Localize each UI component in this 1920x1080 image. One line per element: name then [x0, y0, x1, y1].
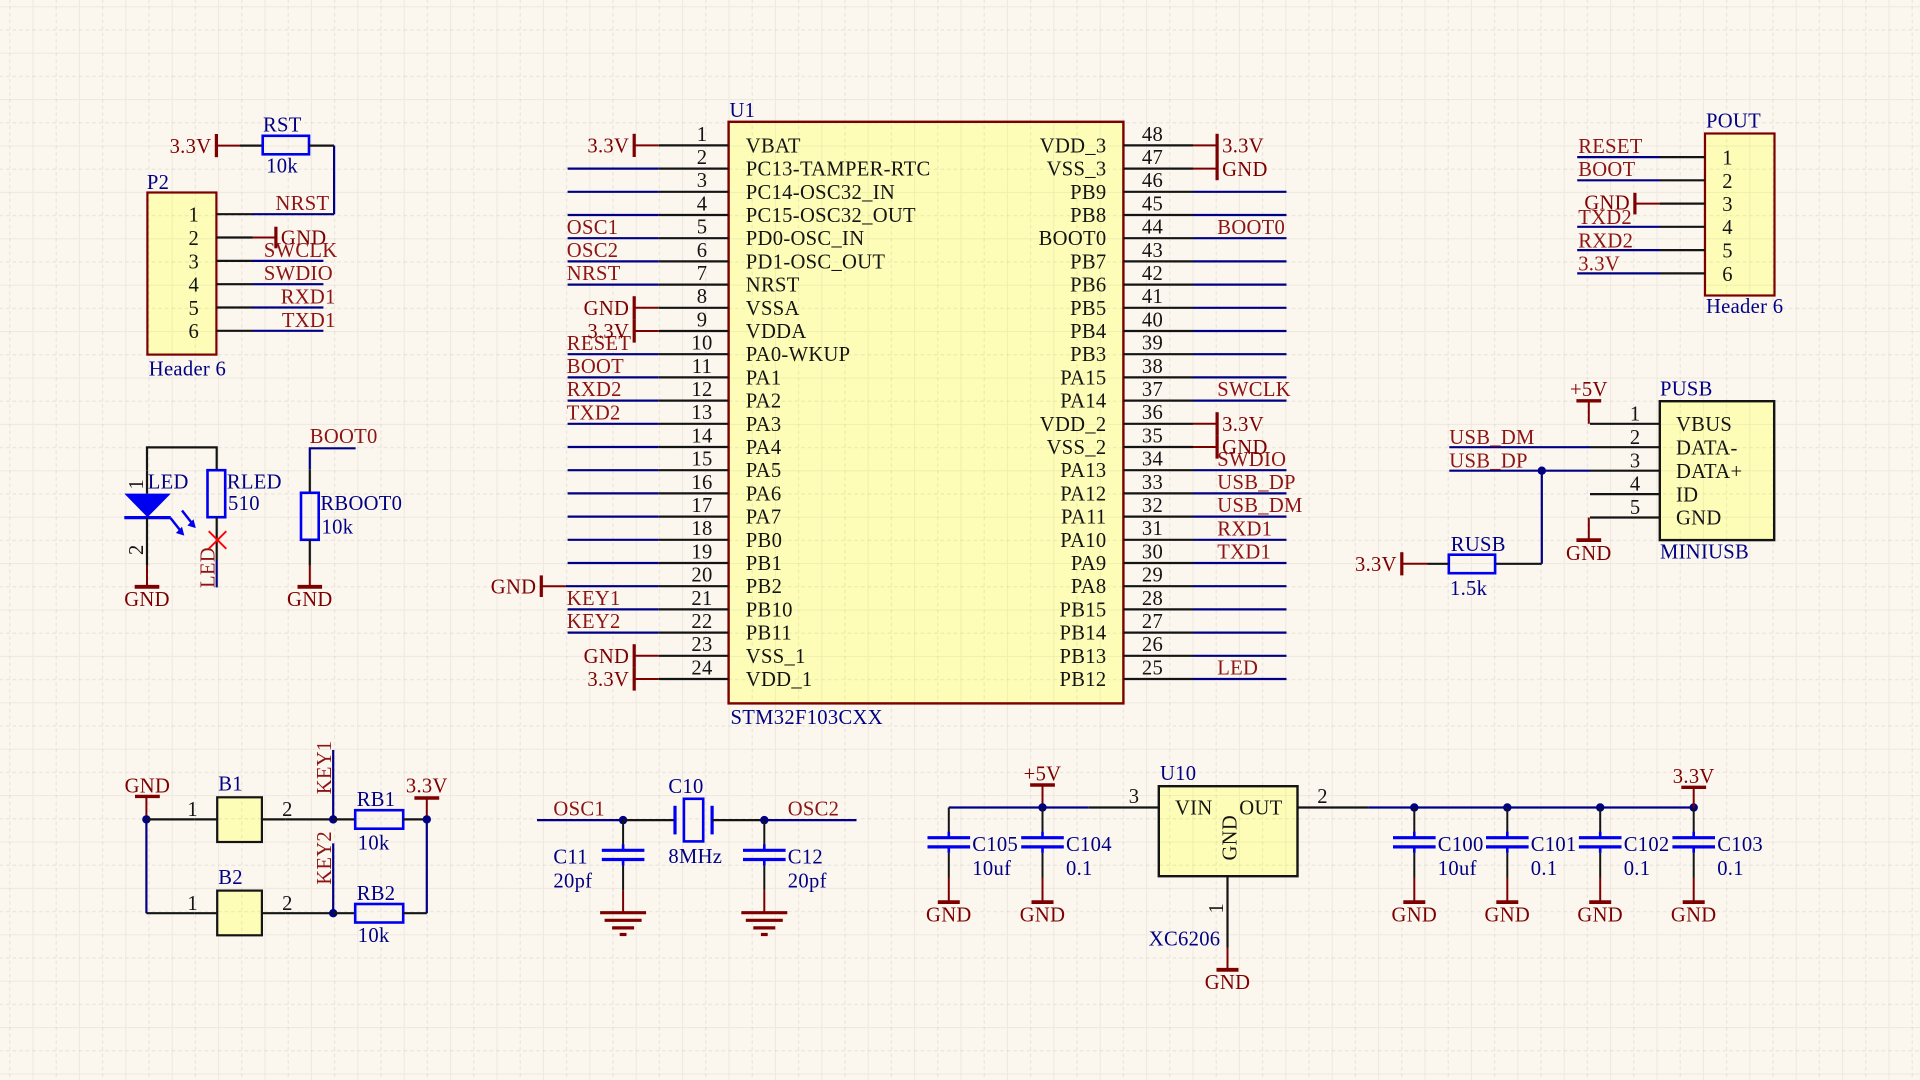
svg-text:36: 36	[1142, 402, 1163, 424]
svg-text:OUT: OUT	[1239, 798, 1282, 820]
svg-text:LED: LED	[1217, 658, 1258, 680]
U1 pin 45 (PB8)	[1070, 193, 1193, 227]
P2 pin 1	[188, 205, 252, 227]
svg-text:PB13: PB13	[1060, 646, 1107, 668]
svg-text:22: 22	[691, 611, 712, 633]
wire	[1193, 260, 1287, 262]
U1 pin 11 (PA1)	[659, 356, 782, 390]
svg-text:5: 5	[1630, 497, 1641, 519]
resistor RB1 10k	[355, 789, 403, 855]
svg-text:4: 4	[1722, 217, 1733, 239]
svg-text:GND: GND	[1577, 904, 1623, 926]
svg-text:Header 6: Header 6	[149, 358, 226, 380]
svg-text:25: 25	[1142, 657, 1163, 679]
power port 3.3V at rail	[1673, 766, 1715, 808]
wire	[1193, 585, 1287, 587]
svg-text:U1: U1	[730, 100, 756, 122]
svg-text:5: 5	[697, 217, 708, 239]
U1 pin 32 (PA11)	[1061, 495, 1193, 529]
wire	[333, 818, 355, 820]
U1 pin 2 (PC13-TAMPER-RTC)	[659, 147, 931, 181]
wire	[1193, 284, 1287, 286]
svg-text:GND: GND	[584, 646, 630, 668]
wire	[285, 912, 333, 914]
net label SWDIO	[1217, 449, 1286, 471]
U1 pin 24 (VDD_1)	[659, 657, 813, 691]
U1 pin 48 (VDD_3)	[1040, 124, 1193, 158]
svg-text:PD0-OSC_IN: PD0-OSC_IN	[746, 228, 865, 250]
svg-text:PC14-OSC32_IN: PC14-OSC32_IN	[746, 182, 895, 204]
ground GND under C102	[1577, 878, 1623, 927]
svg-text:33: 33	[1142, 472, 1163, 494]
header P2 (Header 6) body	[147, 172, 226, 380]
svg-text:1: 1	[1630, 403, 1641, 425]
power port 3.3V at U1 pin 48	[1193, 134, 1264, 158]
svg-text:B1: B1	[218, 774, 243, 796]
svg-text:BOOT0: BOOT0	[310, 426, 378, 448]
svg-text:30: 30	[1142, 541, 1163, 563]
svg-text:XC6206: XC6206	[1149, 928, 1221, 950]
wire	[1506, 808, 1508, 833]
svg-text:NRST: NRST	[567, 263, 621, 285]
net label RXD2	[567, 379, 622, 401]
svg-text:RLED: RLED	[227, 471, 282, 493]
svg-text:RXD2: RXD2	[1578, 230, 1633, 252]
U1 pin 7 (NRST)	[659, 263, 800, 297]
svg-text:10k: 10k	[358, 833, 390, 855]
svg-text:TXD1: TXD1	[1217, 542, 1271, 564]
svg-text:PB9: PB9	[1070, 182, 1106, 204]
U1 pin 42 (PB6)	[1070, 263, 1193, 297]
wire	[712, 819, 764, 821]
wire	[253, 260, 324, 262]
wire	[568, 631, 659, 633]
svg-text:29: 29	[1142, 565, 1163, 587]
svg-text:PA1: PA1	[746, 367, 782, 389]
wire	[568, 214, 659, 216]
wire	[568, 284, 659, 286]
wire	[568, 400, 659, 402]
svg-text:14: 14	[691, 425, 712, 447]
U1 pin 41 (PB5)	[1070, 286, 1193, 320]
svg-text:18: 18	[691, 518, 712, 540]
junction	[1503, 803, 1511, 811]
U1 pin 25 (PB12)	[1060, 657, 1193, 691]
wire	[568, 608, 659, 610]
svg-text:NRST: NRST	[276, 193, 330, 215]
wire	[1506, 853, 1508, 878]
wire	[309, 540, 311, 566]
net label KEY2 (rotated)	[314, 831, 336, 885]
U1 pin 23 (VSS_1)	[659, 634, 806, 668]
power port 3.3V at RUSB	[1355, 552, 1428, 576]
junction	[329, 815, 337, 823]
svg-text:6: 6	[1722, 264, 1733, 286]
svg-text:1: 1	[187, 893, 198, 915]
svg-text:2: 2	[1722, 171, 1733, 193]
U1 pin 9 (VDDA)	[659, 309, 807, 343]
ground GND under LED	[124, 566, 170, 612]
ground GND under RBOOT0	[287, 566, 333, 612]
svg-text:5: 5	[1722, 241, 1733, 263]
svg-text:BOOT: BOOT	[1578, 159, 1635, 181]
net label TXD2	[1578, 207, 1632, 229]
wire KEY2	[332, 843, 334, 913]
svg-text:KEY1: KEY1	[567, 588, 621, 610]
U1 pin 27 (PB14)	[1060, 611, 1193, 645]
svg-text:6: 6	[188, 321, 199, 343]
svg-text:PD1-OSC_OUT: PD1-OSC_OUT	[746, 251, 886, 273]
svg-text:37: 37	[1142, 379, 1163, 401]
wire	[1577, 272, 1660, 274]
svg-text:10: 10	[691, 333, 712, 355]
PUSB pin 5 (GND)	[1590, 497, 1722, 530]
net label BOOT0	[310, 426, 378, 448]
svg-text:26: 26	[1142, 634, 1163, 656]
junction	[142, 815, 150, 823]
U10 pin 1 (GND)	[1206, 815, 1241, 948]
svg-text:VDD_3: VDD_3	[1040, 135, 1107, 157]
svg-text:1: 1	[188, 205, 199, 227]
resistor RST 10k	[263, 115, 309, 178]
svg-text:VSS_3: VSS_3	[1047, 159, 1107, 181]
svg-text:RXD2: RXD2	[567, 379, 622, 401]
svg-text:10k: 10k	[358, 925, 390, 947]
svg-text:PUSB: PUSB	[1660, 379, 1713, 401]
svg-text:C104: C104	[1066, 834, 1112, 856]
wire	[145, 819, 147, 913]
P2 pin 4	[188, 275, 252, 297]
U1 pin 14 (PA4)	[659, 425, 782, 459]
svg-text:PB5: PB5	[1070, 298, 1106, 320]
wire	[309, 470, 311, 493]
svg-text:PB8: PB8	[1070, 205, 1106, 227]
U1 pin 33 (PA12)	[1060, 472, 1193, 506]
net label OSC2	[567, 240, 619, 262]
header POUT (Header 6) body	[1705, 111, 1783, 319]
svg-text:PB14: PB14	[1060, 623, 1107, 645]
svg-text:C102: C102	[1624, 834, 1670, 856]
no-ERC marker	[209, 531, 227, 549]
svg-text:GND: GND	[1222, 159, 1268, 181]
svg-text:3.3V: 3.3V	[1222, 414, 1264, 436]
wire	[426, 819, 428, 913]
svg-text:C105: C105	[972, 834, 1018, 856]
wire	[1541, 471, 1543, 564]
U1 pin 46 (PB9)	[1070, 170, 1193, 204]
svg-text:GND: GND	[491, 576, 537, 598]
wire	[566, 585, 659, 587]
svg-text:3.3V: 3.3V	[406, 775, 448, 797]
svg-text:2: 2	[282, 893, 293, 915]
wire	[1599, 853, 1601, 878]
svg-text:TXD1: TXD1	[282, 310, 336, 332]
net label SWCLK	[264, 240, 338, 262]
svg-text:PB3: PB3	[1070, 344, 1106, 366]
wire	[1193, 214, 1287, 216]
wire	[622, 866, 624, 891]
svg-text:SWDIO: SWDIO	[264, 263, 333, 285]
U1 pin 36 (VDD_2)	[1040, 402, 1193, 436]
net label SWDIO	[264, 263, 333, 285]
svg-text:OSC2: OSC2	[788, 799, 840, 821]
wire	[285, 818, 333, 820]
power port 3.3V at buttons	[406, 775, 448, 819]
U1 pin 47 (VSS_3)	[1047, 147, 1193, 181]
wire USB_DM	[1449, 446, 1590, 448]
svg-text:P2: P2	[147, 172, 169, 194]
svg-text:13: 13	[691, 402, 712, 424]
net label SWCLK	[1217, 379, 1291, 401]
net label TXD2	[567, 402, 621, 424]
U1 pin 43 (PB7)	[1070, 240, 1193, 274]
svg-text:1: 1	[187, 799, 198, 821]
junction	[329, 909, 337, 917]
svg-text:VSS_1: VSS_1	[746, 646, 806, 668]
svg-text:1.5k: 1.5k	[1450, 578, 1488, 600]
svg-text:GND: GND	[1676, 508, 1722, 530]
wire	[1428, 563, 1449, 565]
svg-text:GND: GND	[1020, 904, 1066, 926]
wire	[1693, 808, 1695, 833]
wire	[948, 808, 950, 833]
wire	[1577, 249, 1660, 251]
svg-text:8: 8	[697, 286, 708, 308]
net label USB_DP	[1449, 451, 1527, 473]
svg-text:U10: U10	[1160, 763, 1196, 785]
power port GND at P2 pin 2	[253, 227, 327, 250]
svg-text:PA11: PA11	[1061, 507, 1106, 529]
svg-text:GND: GND	[584, 298, 630, 320]
power port 3.3V at U1 pin 24	[587, 667, 658, 691]
svg-text:PA7: PA7	[746, 507, 782, 529]
wire	[1193, 376, 1287, 378]
svg-text:GND: GND	[926, 904, 972, 926]
svg-text:SWCLK: SWCLK	[1217, 379, 1291, 401]
power port 3.3V at U1 pin 9	[587, 319, 658, 343]
wire	[1693, 853, 1695, 878]
power port GND at U1 pin 20	[491, 575, 566, 598]
wire	[333, 912, 355, 914]
svg-text:RST: RST	[263, 115, 302, 137]
regulator U10 XC6206 body	[1149, 763, 1298, 950]
svg-text:GND: GND	[1566, 543, 1612, 565]
svg-text:USB_DP: USB_DP	[1449, 451, 1527, 473]
wire	[1193, 515, 1287, 517]
resistor RUSB 1.5k	[1449, 534, 1506, 600]
wire	[1577, 156, 1660, 158]
U1 pin 40 (PB4)	[1070, 309, 1193, 343]
ground GND under C100	[1392, 878, 1438, 927]
svg-text:C12: C12	[788, 846, 823, 868]
svg-text:27: 27	[1142, 611, 1163, 633]
svg-text:PA12: PA12	[1060, 483, 1106, 505]
svg-text:+5V: +5V	[1024, 764, 1062, 786]
wire	[1193, 678, 1287, 680]
svg-text:4: 4	[188, 275, 199, 297]
wire KEY1	[332, 750, 334, 819]
wire	[1193, 330, 1287, 332]
button B2	[187, 867, 292, 936]
wire BOOT0	[310, 448, 356, 470]
svg-text:45: 45	[1142, 193, 1163, 215]
svg-text:PA15: PA15	[1060, 367, 1106, 389]
wire	[1193, 539, 1287, 541]
svg-text:3: 3	[1722, 194, 1733, 216]
U1 pin 6 (PD1-OSC_OUT)	[659, 240, 886, 274]
wire	[1413, 853, 1415, 878]
junction	[760, 816, 768, 824]
net label RXD1	[1217, 518, 1272, 540]
U1 pin 1 (VBAT)	[659, 124, 801, 158]
svg-text:NRST: NRST	[746, 275, 800, 297]
ground GND under C104	[1020, 878, 1066, 927]
svg-text:+5V: +5V	[1570, 379, 1608, 401]
net label RXD1	[281, 287, 336, 309]
wire	[948, 853, 950, 878]
wire	[146, 818, 194, 820]
wire	[1193, 307, 1287, 309]
net label OSC1	[553, 799, 605, 821]
net label BOOT	[1578, 159, 1635, 181]
svg-text:2: 2	[1317, 786, 1328, 808]
P2 pin 6	[188, 321, 252, 343]
net label RESET	[1578, 136, 1643, 158]
ground GND at PUSB pin 5	[1566, 518, 1612, 565]
svg-text:PB11: PB11	[746, 623, 792, 645]
wire	[1193, 400, 1287, 402]
svg-text:ID: ID	[1676, 484, 1698, 506]
svg-text:PA4: PA4	[746, 437, 782, 459]
wire	[146, 541, 148, 566]
svg-text:USB_DM: USB_DM	[1217, 495, 1302, 517]
svg-text:C100: C100	[1438, 834, 1484, 856]
svg-text:0.1: 0.1	[1066, 858, 1093, 880]
svg-text:STM32F103CXX: STM32F103CXX	[731, 707, 883, 729]
svg-text:47: 47	[1142, 147, 1163, 169]
svg-text:12: 12	[691, 379, 712, 401]
svg-text:3.3V: 3.3V	[587, 136, 629, 158]
wire	[568, 423, 659, 425]
svg-text:24: 24	[691, 657, 712, 679]
wire	[1495, 563, 1542, 565]
svg-text:KEY2: KEY2	[314, 831, 336, 885]
svg-text:21: 21	[691, 588, 712, 610]
net label USB_DM	[1449, 427, 1534, 449]
button B1	[187, 774, 292, 843]
U10 pin 3 (VIN)	[1089, 786, 1213, 819]
U1 pin 37 (PA14)	[1060, 379, 1193, 413]
wire	[568, 515, 659, 517]
svg-text:0.1: 0.1	[1531, 858, 1558, 880]
svg-text:USB_DP: USB_DP	[1217, 472, 1295, 494]
capacitor C11 20pf	[553, 844, 644, 892]
wire	[403, 912, 427, 914]
svg-text:VDD_2: VDD_2	[1040, 414, 1107, 436]
wire	[568, 191, 659, 193]
svg-text:20pf: 20pf	[788, 871, 827, 893]
U1 pin 30 (PA9)	[1071, 541, 1193, 575]
svg-text:RB2: RB2	[357, 883, 396, 905]
svg-text:PA8: PA8	[1071, 576, 1107, 598]
svg-text:USB_DM: USB_DM	[1449, 427, 1534, 449]
wire	[763, 820, 765, 845]
wire	[1193, 608, 1287, 610]
svg-text:PB1: PB1	[746, 553, 782, 575]
svg-text:PA13: PA13	[1060, 460, 1106, 482]
svg-text:KEY2: KEY2	[567, 611, 621, 633]
svg-text:7: 7	[697, 263, 708, 285]
net label USB_DP	[1217, 472, 1295, 494]
svg-text:44: 44	[1142, 217, 1163, 239]
svg-text:15: 15	[691, 449, 712, 471]
ground GND at buttons	[125, 775, 171, 819]
svg-text:PA14: PA14	[1060, 391, 1106, 413]
svg-text:GND: GND	[1205, 972, 1251, 994]
net label TXD1	[282, 310, 336, 332]
wire	[1413, 808, 1415, 833]
svg-text:VIN: VIN	[1175, 798, 1213, 820]
PUSB pin 4 (ID)	[1590, 474, 1698, 507]
ground GND under U10	[1205, 948, 1251, 995]
POUT pin 2	[1660, 171, 1733, 193]
junction	[619, 816, 627, 824]
U1 pin 5 (PD0-OSC_IN)	[659, 217, 865, 251]
svg-text:10uf: 10uf	[972, 858, 1011, 880]
ground GND under C105	[926, 878, 972, 927]
U1 pin 20 (PB2)	[659, 565, 782, 599]
power port GND at U1 pin 47	[1193, 157, 1268, 181]
wire	[1193, 631, 1287, 633]
svg-text:GND: GND	[1219, 815, 1241, 861]
svg-text:17: 17	[691, 495, 712, 517]
svg-text:20: 20	[691, 565, 712, 587]
U1 pin 10 (PA0-WKUP)	[659, 333, 851, 367]
wire	[403, 818, 427, 820]
ground (earth) under C12	[741, 890, 787, 934]
svg-text:3.3V: 3.3V	[1222, 136, 1264, 158]
svg-text:KEY1: KEY1	[314, 740, 336, 794]
resistor RBOOT0 10k	[301, 493, 402, 540]
wire USB_DP	[1449, 470, 1590, 472]
svg-text:6: 6	[697, 240, 708, 262]
svg-text:3: 3	[697, 170, 708, 192]
svg-text:BOOT0: BOOT0	[1039, 228, 1107, 250]
wire	[568, 492, 659, 494]
power port +5V at PUSB pin 1	[1570, 379, 1608, 424]
PUSB pin 1 (VBUS)	[1590, 403, 1732, 436]
wire	[568, 469, 659, 471]
PUSB pin 2 (DATA-)	[1590, 427, 1738, 460]
U1 pin 22 (PB11)	[659, 611, 792, 645]
svg-text:PA3: PA3	[746, 414, 782, 436]
net label RXD2	[1578, 230, 1633, 252]
net label RESET	[567, 333, 632, 355]
wire	[253, 330, 324, 332]
crystal C10 8MHz	[668, 776, 722, 868]
wire	[568, 237, 659, 239]
svg-text:11: 11	[692, 356, 712, 378]
resistor RLED 510	[208, 470, 282, 517]
U1 pin 28 (PB15)	[1060, 588, 1193, 622]
svg-text:510: 510	[228, 493, 260, 515]
svg-text:5: 5	[188, 298, 199, 320]
svg-text:PB4: PB4	[1070, 321, 1106, 343]
net label 3.3V	[1578, 254, 1620, 276]
junction	[1596, 803, 1604, 811]
svg-text:POUT: POUT	[1706, 111, 1761, 133]
svg-text:GND: GND	[1392, 904, 1438, 926]
